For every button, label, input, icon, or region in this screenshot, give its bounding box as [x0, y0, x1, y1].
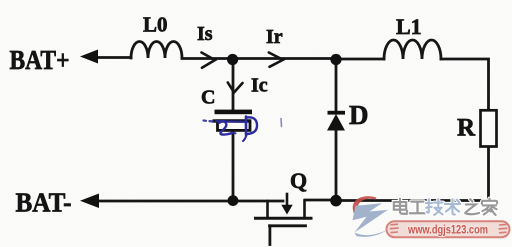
- svg-text:www.dgjs123.com: www.dgjs123.com: [407, 222, 488, 236]
- svg-text:R: R: [457, 115, 476, 142]
- svg-text:Ic: Ic: [251, 75, 268, 97]
- svg-text:L0: L0: [143, 13, 168, 37]
- svg-text:C: C: [201, 87, 215, 109]
- svg-text:Is: Is: [197, 23, 213, 45]
- svg-text:L1: L1: [396, 14, 422, 39]
- svg-text:Q: Q: [290, 168, 307, 193]
- svg-text:BAT+: BAT+: [10, 45, 70, 75]
- svg-text:Ir: Ir: [266, 26, 283, 48]
- svg-text:BAT-: BAT-: [16, 188, 72, 218]
- svg-text:D: D: [349, 100, 369, 130]
